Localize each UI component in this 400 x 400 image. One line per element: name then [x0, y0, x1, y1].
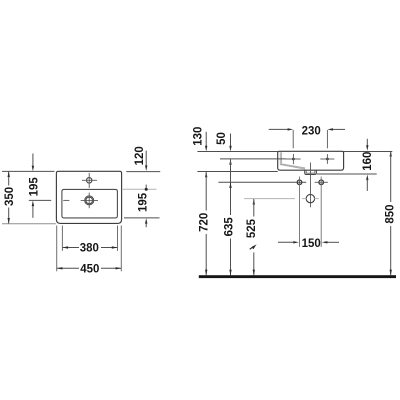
svg-text:195: 195	[26, 177, 40, 197]
dimension 380 arrow right	[112, 246, 118, 248]
mounting hole right (front)	[319, 180, 324, 185]
rim top extension line right	[344, 151, 393, 153]
dimension 380 line	[63, 247, 79, 249]
dimension 450 line	[57, 267, 79, 269]
dimension 130 shaft and arrow	[205, 132, 207, 147]
svg-text:50: 50	[214, 132, 228, 145]
tap centerline extension left	[220, 158, 286, 160]
extension line 380 right below basin	[117, 226, 119, 251]
floor line	[199, 275, 396, 278]
tap hole crosshair horizontal	[82, 179, 97, 181]
dimension 380 arrow left	[63, 246, 69, 248]
drain crosshair vertical	[88, 193, 90, 209]
basin inner bowl (plan)	[62, 189, 118, 218]
dimension 720 line	[205, 172, 207, 178]
230 extension line right tap	[326, 130, 328, 148]
drain inner circle (plan)	[86, 197, 93, 204]
230 extension line left tap	[292, 130, 294, 148]
svg-text:150: 150	[302, 236, 322, 250]
dimension 150	[278, 241, 294, 243]
oblique arrow 525	[250, 246, 254, 249]
mounting hole left crosshair vertical / extension to 150 dim	[299, 177, 301, 247]
tap hole (plan)	[87, 178, 92, 183]
drain outer circle (plan)	[85, 196, 94, 205]
dimension 160	[366, 139, 368, 146]
dimension 350 line	[8, 172, 10, 186]
drain centerline vertical	[310, 163, 312, 208]
drain circle (front)	[306, 194, 314, 202]
svg-text:195: 195	[135, 192, 149, 212]
extension line top edge left	[2, 170, 55, 172]
bowl interior profile (grey)	[280, 152, 305, 169]
dimension 195 left lower arrow	[32, 206, 34, 218]
tap hole dot right (front)	[326, 158, 329, 161]
tap hole left crosshair	[286, 158, 300, 160]
svg-text:525: 525	[244, 219, 258, 239]
drain centerline dash left	[63, 199, 69, 201]
svg-text:230: 230	[302, 123, 322, 137]
dimension 350 arrow up	[8, 171, 10, 177]
svg-text:850: 850	[382, 204, 396, 224]
extension line 450 left below basin	[56, 226, 58, 272]
underside reference line (130 bottom / 720 top)	[197, 171, 277, 173]
dimension 635 line (also 50 bottom arrow)	[229, 159, 231, 165]
160 lower reference line	[317, 173, 377, 175]
dimension 450 arrow left	[57, 267, 63, 269]
dimension 195 left upper arrow	[32, 154, 34, 167]
tap hole right crosshair	[320, 158, 334, 160]
mounting hole left (front)	[297, 180, 302, 185]
svg-text:380: 380	[80, 240, 100, 254]
dimension 450 arrow right	[116, 267, 122, 269]
rim top extension line left	[197, 151, 277, 153]
dimension 120 shaft and arrow	[145, 151, 147, 167]
drain circle grey ticks	[302, 198, 307, 200]
dimension 850 line	[390, 151, 392, 157]
dimension 230	[269, 128, 289, 130]
svg-text:350: 350	[1, 186, 15, 206]
svg-text:120: 120	[132, 146, 146, 166]
drain crosshair horizontal	[81, 199, 98, 201]
dimension 525 line	[253, 199, 255, 205]
drain outlet tab	[305, 170, 317, 174]
extension line 380 left below basin	[61, 226, 63, 251]
dimension 195 right lower arrow	[145, 218, 147, 224]
svg-text:160: 160	[360, 151, 374, 171]
extension line inner bowl bottom right	[124, 217, 160, 219]
basin outer rim (plan)	[56, 171, 121, 223]
svg-text:720: 720	[196, 212, 210, 232]
tap hole crosshair vertical	[88, 173, 90, 188]
mounting hole reference line (635)	[218, 181, 306, 183]
drain centerline extension to left edge	[29, 199, 51, 201]
svg-text:130: 130	[190, 126, 204, 146]
extension line bottom edge left	[2, 223, 56, 225]
mounting hole right crosshair horizontal	[315, 181, 328, 183]
svg-text:450: 450	[80, 261, 100, 275]
basin body (front)	[278, 151, 344, 170]
drain height reference line grey (525)	[244, 198, 295, 200]
tap hole dot left (front)	[292, 158, 295, 161]
svg-text:635: 635	[221, 217, 235, 237]
mounting hole right crosshair vertical / extension to 150 dim	[320, 177, 322, 247]
extension line 450 right below basin	[120, 226, 122, 272]
extension line inner bowl top (grey)	[122, 188, 157, 190]
extension line top edge right of basin	[126, 171, 160, 173]
junction dot 120/195	[145, 188, 148, 191]
dimension 350 arrow down	[8, 218, 10, 224]
dimension 50 shaft and arrow	[230, 134, 232, 147]
